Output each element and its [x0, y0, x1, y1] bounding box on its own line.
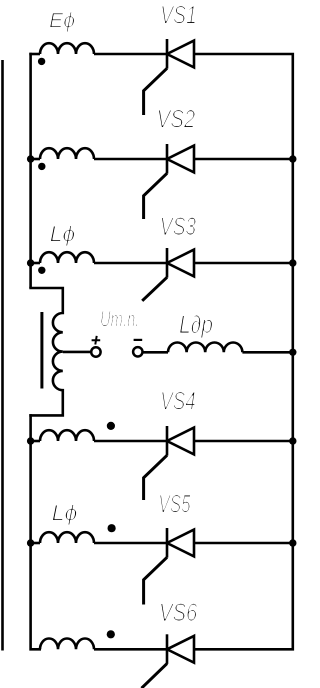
thyristor VS1 triangle: [167, 41, 194, 68]
thyristor VS1 cathode bar: [166, 39, 169, 69]
thyristor VS2 triangle: [167, 146, 194, 173]
wire: - terminal to smoothing choke: [142, 351, 168, 354]
wire: choke to right bus: [242, 351, 292, 354]
svg-text:VS2: VS2: [157, 105, 196, 133]
wire row 4 right: [194, 440, 293, 443]
wire row 4 middle: [94, 440, 167, 443]
wire row 5 middle: [94, 542, 167, 545]
junction dot left bus row 4: [27, 437, 34, 444]
junction dot left bus row 3: [27, 259, 34, 266]
inductor row 1 (phase winding): [40, 43, 94, 54]
thyristor VS1 gate: [144, 68, 167, 115]
thyristor VS3 gate: [142, 277, 167, 301]
transformer core bar: [40, 312, 43, 389]
junction dot right bus row 5: [289, 539, 296, 546]
inductor row 2 (phase winding): [40, 148, 94, 159]
thyristor VS2 gate: [144, 173, 167, 219]
inductor row 6 (phase winding): [40, 639, 94, 650]
svg-text:L∂p: L∂p: [179, 311, 213, 339]
polarity dot row 6: [107, 630, 115, 638]
svg-text:Um.n.: Um.n.: [100, 306, 139, 331]
thyristor VS6 triangle: [167, 636, 194, 663]
inductor row 4 (phase winding): [40, 430, 94, 441]
junction dot right bus middle: [289, 349, 296, 356]
svg-text:VS4: VS4: [160, 388, 195, 416]
wire: center tap to + terminal: [63, 351, 92, 354]
wire row 2 left: [31, 158, 40, 161]
junction dot left bus row 2: [27, 155, 34, 162]
thyristor VS4 triangle: [167, 428, 194, 455]
thyristor VS6 gate: [142, 664, 168, 688]
junction dot left bus row 5: [27, 539, 34, 546]
thyristor VS3 cathode bar: [166, 248, 169, 278]
junction dot right bus row 3: [289, 259, 296, 266]
polarity dot row 5: [108, 524, 116, 532]
plus sign: [92, 336, 101, 345]
terminal - (output): [133, 347, 142, 356]
inductor Lдр (smoothing choke, 4 humps): [168, 343, 242, 353]
junction dot right bus row 4: [289, 437, 296, 444]
thyristor VS6 cathode bar: [166, 634, 169, 664]
wire: right bus loop (row1 right wire, right bus, row6 right wire): [193, 54, 293, 649]
inductor row 5 (phase winding): [40, 532, 94, 543]
polarity dot row 1: [38, 58, 45, 65]
wire row 5 right: [194, 542, 293, 545]
polarity dot row 3: [38, 267, 45, 274]
svg-text:VS5: VS5: [158, 491, 190, 519]
wire row 1 left: [29, 53, 40, 56]
thyristor VS5 gate: [144, 557, 167, 604]
thyristor VS2 cathode bar: [166, 144, 169, 174]
terminal + (output): [91, 347, 100, 356]
svg-text:Lϕ: Lϕ: [50, 222, 76, 247]
thyristor VS3 triangle: [167, 250, 194, 277]
wire row 1 middle: [94, 53, 167, 56]
svg-text:Lϕ: Lϕ: [52, 501, 78, 526]
inductor row 3 (phase winding): [40, 252, 94, 263]
wire: left branch bus upper (rows 1-3): [29, 53, 32, 288]
thyristor VS4 gate: [144, 455, 167, 500]
svg-text:VS6: VS6: [159, 599, 197, 627]
polarity dot row 2: [38, 163, 45, 170]
wire: left branch bus lower (rows 4-6) with bottom corner to row 6: [31, 414, 41, 649]
svg-text:Еϕ: Еϕ: [49, 9, 75, 33]
wire: far-left vertical bus: [1, 60, 4, 651]
wire row 2 right: [194, 158, 293, 161]
junction dot right bus row 2: [289, 155, 296, 162]
wire row 4 left: [31, 440, 40, 443]
thyristor VS4 cathode bar: [166, 426, 169, 456]
svg-text:VS1: VS1: [160, 2, 196, 30]
thyristor VS5 triangle: [167, 530, 194, 557]
wire: jog into interphase winding + winding (4 humps) + bottom jog: [29, 288, 63, 415]
wire row 3 right: [194, 262, 293, 265]
svg-text:VS3: VS3: [160, 213, 196, 241]
thyristor VS5 cathode bar: [166, 528, 169, 558]
wire row 5 left: [31, 542, 40, 545]
wire row 6 middle: [94, 648, 167, 651]
wire row 3 left: [31, 262, 40, 265]
wire row 2 middle: [94, 158, 167, 161]
wire row 3 middle: [94, 262, 167, 265]
minus sign: [134, 339, 143, 341]
polarity dot row 4: [107, 422, 115, 430]
